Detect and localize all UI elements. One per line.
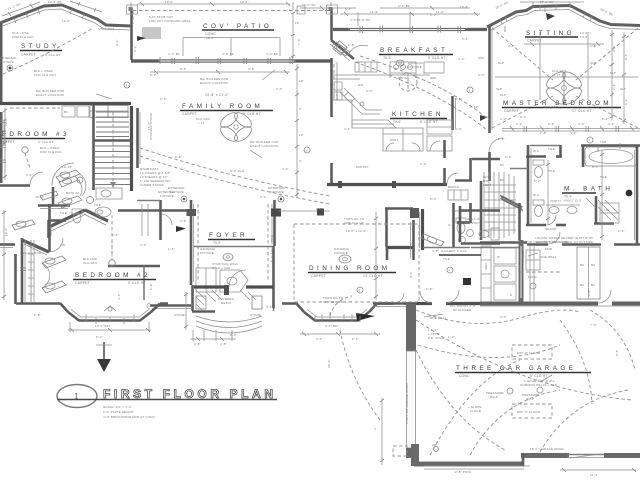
svg-text:FIXTURE: FIXTURE xyxy=(170,190,184,194)
svg-text:12'-6": 12'-6" xyxy=(62,19,71,23)
svg-text:5'-4": 5'-4" xyxy=(352,337,359,341)
garage bottom-left dashed rect xyxy=(393,446,407,456)
title notes xyxy=(103,405,155,419)
dining ceiling dashed rect xyxy=(270,209,419,303)
breakfast top dim texts xyxy=(350,4,437,22)
family room inner dim xyxy=(150,67,290,97)
laundry south wall xyxy=(480,290,640,306)
svg-text:STUB OUT: STUB OUT xyxy=(98,27,114,31)
svg-text:21'-4": 21'-4" xyxy=(590,473,599,477)
svg-text:13'-0" BAY: 13'-0" BAY xyxy=(95,324,111,328)
svg-text:2'-8": 2'-8" xyxy=(34,313,41,317)
svg-text:8: 8 xyxy=(79,179,81,183)
svg-text:4'-0": 4'-0" xyxy=(500,315,507,319)
powder bath fixtures right xyxy=(423,203,470,248)
sitting bay dim texts xyxy=(495,0,614,17)
svg-text:GALLERY 9' CLG: GALLERY 9' CLG xyxy=(441,249,467,253)
svg-text:W.I.C.: W.I.C. xyxy=(36,195,45,199)
svg-text:13'-0": 13'-0" xyxy=(580,35,589,39)
svg-text:FOR CLG FAN: FOR CLG FAN xyxy=(12,35,34,39)
svg-text:3'-0": 3'-0" xyxy=(420,162,427,166)
svg-text:2'-8": 2'-8" xyxy=(180,219,187,223)
svg-text:STONE: STONE xyxy=(250,313,261,317)
study closet boxes xyxy=(90,106,128,118)
svg-text:2'-8": 2'-8" xyxy=(548,122,555,126)
stair treads lower flight xyxy=(95,146,130,185)
svg-text:2'-8": 2'-8" xyxy=(426,287,433,291)
svg-text:SINK: SINK xyxy=(484,262,488,270)
svg-text:TILE: TILE xyxy=(383,56,391,60)
laundry clutter xyxy=(520,250,560,289)
study bay window wall xyxy=(0,5,131,30)
all doors note xyxy=(424,304,476,340)
svg-text:CARPET: CARPET xyxy=(182,112,197,116)
bedroom3 closet boxes xyxy=(10,106,89,117)
svg-text:W.C.: W.C. xyxy=(533,193,540,197)
svg-text:9' CLG HT: 9' CLG HT xyxy=(428,56,446,60)
foyer east wall xyxy=(271,200,281,246)
svg-text:CLG FAN: CLG FAN xyxy=(544,105,558,109)
svg-text:4'-0" BK: 4'-0" BK xyxy=(222,52,234,56)
svg-text:FIRST FLOOR PLAN: FIRST FLOOR PLAN xyxy=(103,387,277,401)
patio south windowed wall xyxy=(131,57,332,64)
svg-text:10'-0": 10'-0" xyxy=(165,0,174,4)
foyer light fixtures xyxy=(168,186,285,202)
porch dim vertical xyxy=(184,292,188,330)
dining west wall xyxy=(274,303,305,312)
garage extra arcs xyxy=(418,310,635,455)
svg-text:2'-8": 2'-8" xyxy=(220,342,227,346)
svg-text:W2-P: W2-P xyxy=(490,395,498,399)
garage west wall with door xyxy=(405,304,416,458)
svg-text:TUB: TUB xyxy=(600,140,606,144)
svg-text:COV' PATIO: COV' PATIO xyxy=(203,23,272,30)
svg-text:8' MTL DR GARAGE DOOR: 8' MTL DR GARAGE DOOR xyxy=(405,383,409,424)
mud hall walls xyxy=(457,203,471,223)
svg-text:UP: UP xyxy=(410,242,414,246)
svg-text:5'-0" ARCH OPNG: 5'-0" ARCH OPNG xyxy=(270,234,274,262)
svg-text:PANTRY: PANTRY xyxy=(467,221,480,225)
svg-text:5'-6": 5'-6" xyxy=(335,93,339,100)
svg-text:2'-0" BK: 2'-0" BK xyxy=(398,4,410,8)
hall to garage walls xyxy=(387,220,414,260)
svg-text:12': 12' xyxy=(299,79,304,83)
study ceiling dashed arc xyxy=(3,28,93,74)
svg-text:4: 4 xyxy=(449,269,451,273)
svg-text:7'-4": 7'-4" xyxy=(612,83,616,90)
room label M BATH xyxy=(562,186,613,203)
bedroom3 south wall xyxy=(0,172,43,186)
svg-text:10'-6": 10'-6" xyxy=(4,227,8,236)
svg-text:TILE: TILE xyxy=(60,211,67,215)
porch dim drops xyxy=(190,330,236,346)
svg-text:BEDROOM #3: BEDROOM #3 xyxy=(0,131,70,138)
svg-text:EXP JT FLOOR: EXP JT FLOOR xyxy=(517,351,541,355)
mud room walls xyxy=(471,203,553,251)
breakfast north windowed wall xyxy=(333,26,487,33)
svg-text:TILE: TILE xyxy=(600,175,607,179)
svg-text:LAUNDRY: LAUNDRY xyxy=(521,247,525,262)
master closet more hatch xyxy=(484,192,516,222)
svg-text:3': 3' xyxy=(299,159,302,163)
svg-text:FIXTURE: FIXTURE xyxy=(160,194,174,198)
mud door black marker xyxy=(463,253,557,285)
svg-text:11'-4": 11'-4" xyxy=(436,10,444,14)
kitchen extra counter lines xyxy=(333,64,436,128)
svg-text:9'-8": 9'-8" xyxy=(248,67,255,71)
garage dim lines xyxy=(373,398,530,466)
bedroom2 bay window xyxy=(68,304,168,329)
room label FOYER xyxy=(200,232,255,261)
svg-text:TILE: TILE xyxy=(443,257,450,261)
svg-text:9' CLG HT: 9' CLG HT xyxy=(530,374,548,378)
hall closet near stairs xyxy=(137,200,172,240)
svg-text:ENTRY: ENTRY xyxy=(221,301,232,305)
svg-text:4'-0": 4'-0" xyxy=(570,131,577,135)
svg-text:5'-8": 5'-8" xyxy=(590,44,597,48)
garage north wall xyxy=(373,304,416,307)
water heater note xyxy=(535,236,593,244)
entry wall xyxy=(194,270,273,295)
garage driveway dashed arcs xyxy=(330,296,592,450)
master closet hatch xyxy=(481,172,523,240)
garage center post xyxy=(530,447,565,451)
svg-text:6'-2": 6'-2" xyxy=(534,179,541,183)
svg-text:FIXTURE: FIXTURE xyxy=(334,251,348,255)
master south wall ticks xyxy=(524,126,619,132)
bedroom3 window ticks xyxy=(0,120,6,148)
kitchen island xyxy=(352,120,396,128)
svg-text:4'-2": 4'-2" xyxy=(140,243,147,247)
garage notes left xyxy=(468,388,513,413)
kitchen counters xyxy=(333,62,444,114)
svg-text:11'-2": 11'-2" xyxy=(147,122,151,130)
room label SITTING xyxy=(525,30,592,43)
svg-text:9' CLG HT: 9' CLG HT xyxy=(38,140,53,144)
svg-text:SLP: SLP xyxy=(610,71,616,75)
extra window tick pairs patio wall xyxy=(172,58,271,64)
garage right dim xyxy=(560,468,636,477)
svg-text:5'-4": 5'-4" xyxy=(345,7,352,11)
svg-text:THREE CAR GARAGE: THREE CAR GARAGE xyxy=(456,365,576,372)
svg-text:CARPET: CARPET xyxy=(21,53,36,57)
svg-text:+ LT: + LT xyxy=(554,73,560,77)
svg-text:3'-4": 3'-4" xyxy=(344,127,351,131)
svg-text:2: 2 xyxy=(126,84,128,88)
kitchen west wall xyxy=(330,58,333,185)
svg-text:17' CLG HT: 17' CLG HT xyxy=(572,109,592,113)
svg-text:4'-6": 4'-6" xyxy=(455,97,462,101)
svg-text:6: 6 xyxy=(359,289,361,293)
svg-text:3'-4": 3'-4" xyxy=(516,122,523,126)
svg-text:CONC: CONC xyxy=(459,374,470,378)
svg-text:FLOOR: FLOOR xyxy=(470,409,482,413)
room label BREAKFAST xyxy=(379,47,453,69)
laundry east cabinets xyxy=(481,246,491,302)
svg-text:12'-0" BK: 12'-0" BK xyxy=(48,0,62,4)
svg-text:BENCH: BENCH xyxy=(448,185,459,189)
right edge dim chains xyxy=(600,32,628,240)
bath west double wall xyxy=(510,145,562,225)
room label BEDROOM #3 xyxy=(0,131,70,154)
svg-text:DINING ROOM: DINING ROOM xyxy=(309,265,390,272)
svg-text:FIXTURE: FIXTURE xyxy=(0,60,14,64)
family room dashed ceiling arcs xyxy=(140,56,489,204)
room label KITCHEN xyxy=(390,111,447,124)
svg-text:TILE: TILE xyxy=(213,241,221,245)
porch stone hatch more xyxy=(206,290,256,302)
svg-text:2'-4": 2'-4" xyxy=(505,155,512,159)
study left wall xyxy=(0,23,3,103)
svg-text:REF: REF xyxy=(430,76,436,80)
svg-text:7'-0": 7'-0" xyxy=(590,323,597,327)
family room dim chain xyxy=(295,64,304,198)
svg-text:VAULT CLG: VAULT CLG xyxy=(564,199,582,203)
svg-text:UNDER STAIRS: UNDER STAIRS xyxy=(140,183,164,187)
bedroom3 window left wall xyxy=(1,112,4,183)
stair treads upper flight xyxy=(96,112,129,137)
svg-text:TILE: TILE xyxy=(548,169,555,173)
study right wall xyxy=(130,8,133,60)
svg-text:BEDROOM #2: BEDROOM #2 xyxy=(75,272,151,279)
laundry west wall xyxy=(519,240,535,303)
svg-text:4'-0": 4'-0" xyxy=(316,207,323,211)
sitting keynote arrow xyxy=(546,13,555,20)
svg-text:PANT: PANT xyxy=(390,138,398,142)
bath south wall right xyxy=(527,232,640,245)
bedroom2 closet shelves xyxy=(28,240,34,302)
room label COV'D PATIO xyxy=(202,23,274,40)
svg-text:9' CLG HT: 9' CLG HT xyxy=(128,281,146,285)
svg-text:W/ CLOSER: W/ CLOSER xyxy=(453,308,472,312)
dining dim chain xyxy=(374,212,378,300)
svg-text:KITCHEN: KITCHEN xyxy=(392,111,444,118)
svg-text:4'-4": 4'-4" xyxy=(266,305,273,309)
sitting bay wall xyxy=(487,6,640,32)
svg-text:2'-10": 2'-10" xyxy=(470,105,479,109)
svg-text:3'-0"x5'-0" BK: 3'-0"x5'-0" BK xyxy=(350,18,370,22)
patio roof dashed line xyxy=(133,10,330,12)
room label THREE CAR GARAGE xyxy=(455,365,591,387)
master dashed vault lines xyxy=(492,28,638,128)
kitchen east cabinets xyxy=(427,120,452,151)
svg-text:FOR OPT OUTDOOR GRILL: FOR OPT OUTDOOR GRILL xyxy=(149,19,191,23)
patio right dim chain xyxy=(291,12,300,58)
bay exterior dim lines xyxy=(2,1,102,16)
corner fireplace diagonal xyxy=(330,40,354,61)
chimney box on study right wall xyxy=(127,5,138,14)
svg-text:8'-8": 8'-8" xyxy=(615,349,619,356)
patio dimension line xyxy=(168,38,280,57)
master door arc xyxy=(489,138,503,152)
door jambs on hall wall xyxy=(338,181,396,188)
room label FAMILY ROOM xyxy=(180,103,273,116)
svg-text:10'-0": 10'-0" xyxy=(240,0,249,4)
svg-text:19'-8" x 21'-0": 19'-8" x 21'-0" xyxy=(205,93,229,97)
svg-text:W: W xyxy=(497,255,500,259)
garage expansion joint rects xyxy=(512,345,552,418)
dining window ticks xyxy=(330,312,344,320)
svg-text:FOLD: FOLD xyxy=(528,275,537,279)
pantry walls right xyxy=(460,206,500,244)
svg-text:6'-0": 6'-0" xyxy=(592,165,599,169)
svg-text:MUD: MUD xyxy=(545,247,553,251)
svg-text:7'-0": 7'-0" xyxy=(297,38,301,45)
svg-text:B/I: B/I xyxy=(580,283,584,287)
svg-text:PANTRY: PANTRY xyxy=(356,165,369,169)
foyer west wall xyxy=(147,200,268,312)
svg-text:3: 3 xyxy=(469,89,471,93)
svg-text:9'-2": 9'-2" xyxy=(115,39,119,46)
svg-text:BATH #2: BATH #2 xyxy=(66,191,79,195)
breakfast table dashed xyxy=(399,73,417,91)
svg-text:FIXTURE: FIXTURE xyxy=(200,251,214,255)
svg-text:SLP: SLP xyxy=(620,87,626,91)
dining south dim xyxy=(300,332,380,341)
svg-text:3'-2": 3'-2" xyxy=(26,173,33,177)
svg-text:2'-8": 2'-8" xyxy=(498,137,505,141)
svg-text:5'-0": 5'-0" xyxy=(150,73,157,77)
svg-text:3'-0": 3'-0" xyxy=(508,44,515,48)
powder room walls xyxy=(194,246,274,308)
svg-text:FIXTURE: FIXTURE xyxy=(408,65,422,69)
svg-text:B/I: B/I xyxy=(64,110,68,114)
svg-text:9'-0": 9'-0" xyxy=(478,73,485,77)
svg-text:10'-0": 10'-0" xyxy=(206,36,215,40)
kitchen east wall xyxy=(453,96,456,130)
svg-text:13' CLG HT: 13' CLG HT xyxy=(363,274,383,278)
laundry tiny notes xyxy=(484,247,525,270)
svg-text:12': 12' xyxy=(299,133,304,137)
svg-text:5'-4": 5'-4" xyxy=(462,37,469,41)
gas stub note xyxy=(149,15,191,23)
svg-text:W.C.: W.C. xyxy=(533,149,540,153)
svg-text:13'-0" x 12'-0": 13'-0" x 12'-0" xyxy=(346,229,367,233)
washer dryer xyxy=(494,248,516,300)
bedroom2 bay dim xyxy=(68,322,151,332)
chimney box patio east xyxy=(327,5,338,14)
svg-text:3'-0": 3'-0" xyxy=(500,117,507,121)
hall wall east verticals xyxy=(443,140,446,185)
svg-text:+ LT: + LT xyxy=(198,121,204,125)
svg-text:8'-0": 8'-0" xyxy=(455,127,462,131)
svg-text:B/I: B/I xyxy=(500,163,504,167)
svg-text:4'-0" BK: 4'-0" BK xyxy=(266,52,278,56)
sitting apex dim drops xyxy=(520,2,584,8)
svg-text:EXACT LOCATION: EXACT LOCATION xyxy=(250,144,278,148)
bedroom3 fan fixture xyxy=(22,147,30,168)
svg-text:4'-6": 4'-6" xyxy=(117,293,121,300)
svg-text:B/I: B/I xyxy=(500,178,504,182)
svg-text:FOR CLG FAN: FOR CLG FAN xyxy=(40,150,62,154)
patio east wall xyxy=(330,8,333,40)
svg-text:3'-0": 3'-0" xyxy=(276,87,283,91)
note re builder family xyxy=(200,77,279,148)
master bedroom extra notes xyxy=(495,32,640,131)
left edge dim chain 2 xyxy=(2,210,8,300)
grill keynote arrow xyxy=(137,36,146,41)
bedroom2 closet west wall xyxy=(0,238,25,304)
right edge wall fragment xyxy=(635,145,638,245)
study south wall xyxy=(0,102,131,105)
master west wall xyxy=(490,26,493,181)
stair left wall xyxy=(92,105,95,190)
svg-text:FAMILY ROOM: FAMILY ROOM xyxy=(182,103,263,110)
svg-text:9'-8": 9'-8" xyxy=(180,67,187,71)
svg-text:6'-8": 6'-8" xyxy=(175,155,182,159)
svg-text:DW: DW xyxy=(358,83,363,87)
svg-text:16'-0" GARAGE DOOR: 16'-0" GARAGE DOOR xyxy=(530,447,565,451)
room label STUDY xyxy=(20,43,62,77)
svg-text:2'-8": 2'-8" xyxy=(194,342,201,346)
bath built-ins xyxy=(577,247,600,299)
svg-text:TILE: TILE xyxy=(393,120,401,124)
svg-text:9'-0" BAY: 9'-0" BAY xyxy=(325,324,339,328)
extra annotation speckle xyxy=(12,19,625,368)
svg-text:1'-6": 1'-6" xyxy=(168,247,175,251)
svg-text:6'-2": 6'-2" xyxy=(624,98,628,105)
keynote circles xyxy=(77,82,593,293)
room label BEDROOM #2 xyxy=(73,240,156,285)
svg-text:20'-0" BK: 20'-0" BK xyxy=(302,3,316,7)
ceiling fan clover family xyxy=(196,110,254,144)
svg-text:3'-4": 3'-4" xyxy=(608,122,615,126)
svg-text:ONE WALL: ONE WALL xyxy=(430,316,447,320)
svg-text:B/I: B/I xyxy=(591,263,595,267)
svg-text:3'-6": 3'-6" xyxy=(448,223,455,227)
svg-text:4'-0" BK: 4'-0" BK xyxy=(168,52,180,56)
svg-text:10'-8": 10'-8" xyxy=(460,5,469,9)
svg-text:4'-0" BRICK/DOOR HDR HT (UNO): 4'-0" BRICK/DOOR HDR HT (UNO) xyxy=(103,415,155,419)
closet south wall xyxy=(480,241,527,244)
front entry keynote wedge xyxy=(356,313,375,321)
porch columns and steps xyxy=(196,296,262,333)
svg-text:FOR CLG FAN: FOR CLG FAN xyxy=(34,73,56,77)
misc scattered tiny dims xyxy=(36,38,591,319)
svg-text:ONE WALL: ONE WALL xyxy=(540,255,557,259)
breakfast wall ticks xyxy=(360,26,461,33)
svg-text:SITTING: SITTING xyxy=(526,30,575,37)
svg-text:2'-6": 2'-6" xyxy=(112,233,119,237)
svg-text:9'-0" PLATE HEIGHT: 9'-0" PLATE HEIGHT xyxy=(103,410,134,414)
water closet xyxy=(526,193,566,231)
family room west feature wall xyxy=(138,108,141,168)
svg-text:3': 3' xyxy=(299,107,302,111)
svg-text:TILE: TILE xyxy=(94,203,101,207)
svg-text:2'-8": 2'-8" xyxy=(160,97,167,101)
svg-text:STUDY: STUDY xyxy=(21,43,60,50)
svg-text:2'-8": 2'-8" xyxy=(587,289,591,296)
patio dashed edge verticals xyxy=(132,11,134,25)
svg-text:2'-4": 2'-4" xyxy=(618,229,625,233)
svg-text:EXACT LOCATION: EXACT LOCATION xyxy=(200,81,228,85)
svg-text:9'-0": 9'-0" xyxy=(366,89,373,93)
garage more arcs xyxy=(416,320,632,455)
master bath extra clutter xyxy=(534,160,607,224)
exterior fixture note near stairs xyxy=(158,190,175,198)
title line xyxy=(57,399,277,401)
master keynote arrow xyxy=(480,115,488,121)
grill pad hatch xyxy=(142,27,161,39)
svg-text:2'-8": 2'-8" xyxy=(540,131,547,135)
stair landing wall xyxy=(93,139,133,142)
svg-text:16': 16' xyxy=(295,21,300,25)
svg-text:TILE: TILE xyxy=(548,147,555,151)
hall walls extension y303 xyxy=(416,290,480,304)
bath black fixture dot xyxy=(626,190,633,197)
svg-text:8'-4": 8'-4" xyxy=(624,53,628,60)
svg-text:9'-8": 9'-8" xyxy=(612,45,616,52)
